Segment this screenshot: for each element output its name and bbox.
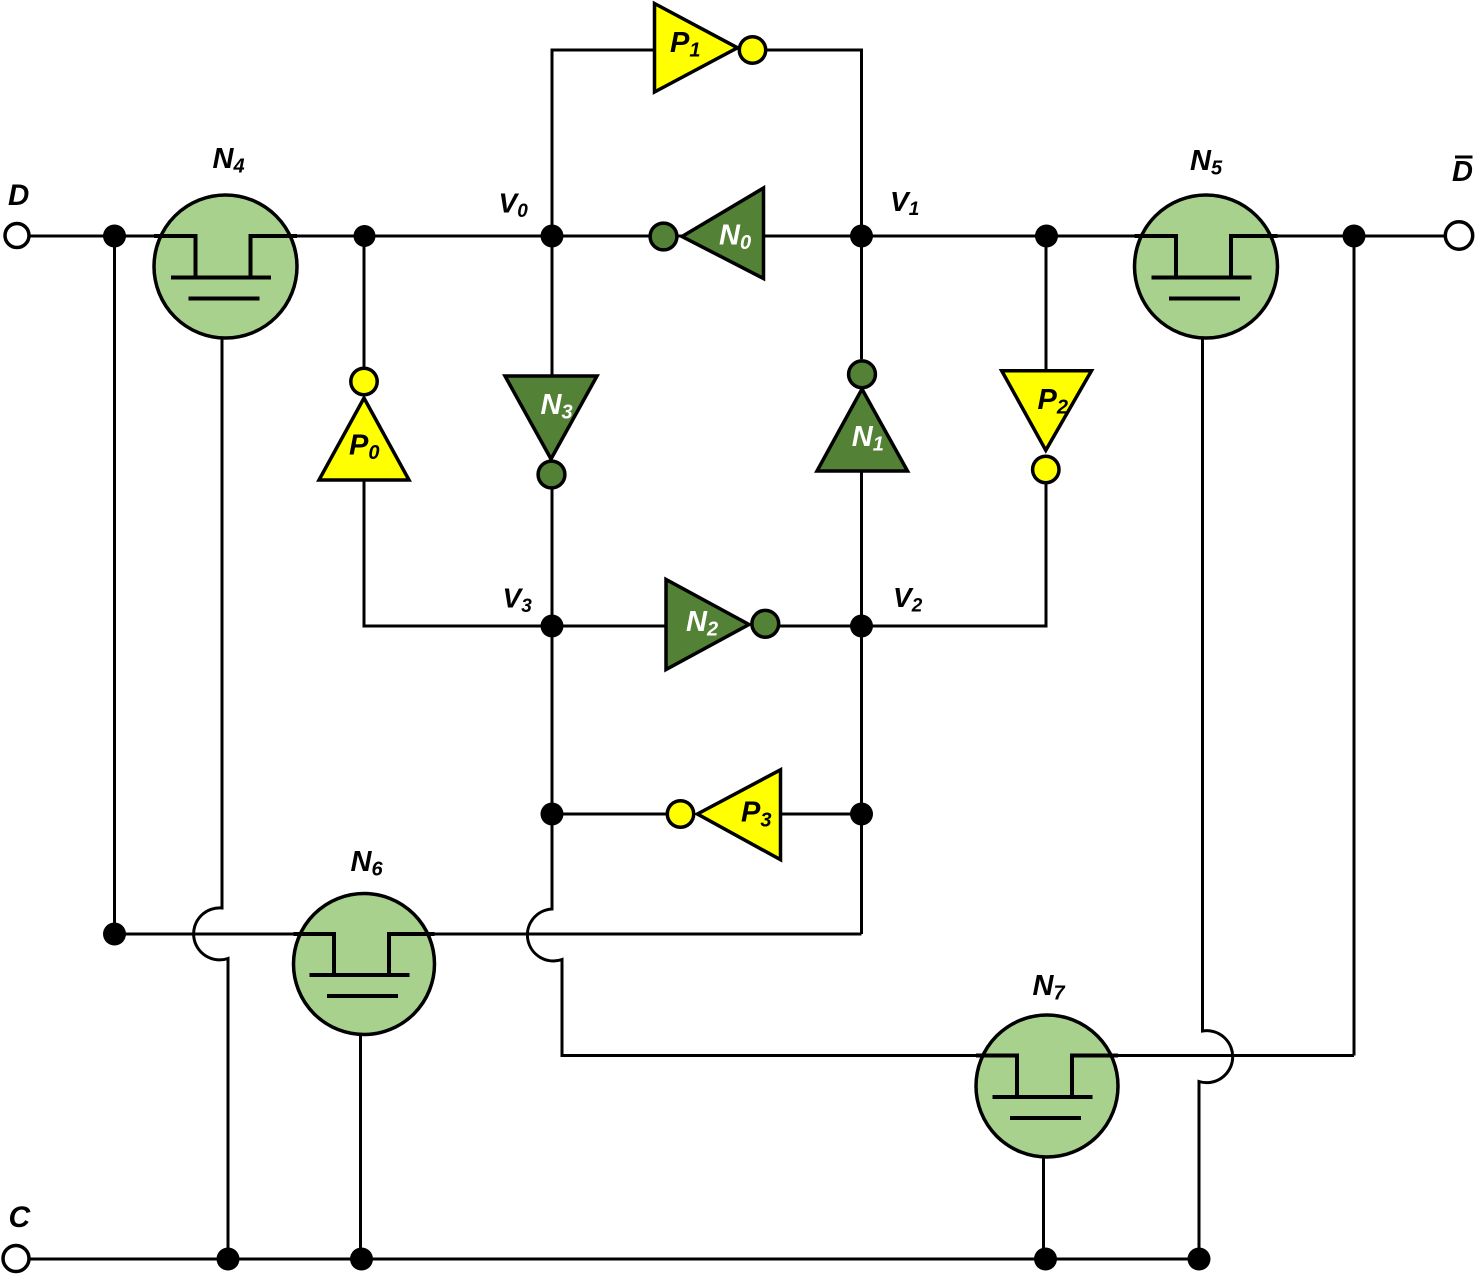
wire N6 row right to V1 column — [389, 933, 862, 936]
wire N6 row left — [115, 933, 335, 936]
wire D junction down to N6 row — [113, 236, 116, 934]
junction dot C rail N4 branch — [217, 1248, 240, 1271]
wire V1 column down to N6 wire — [860, 814, 863, 934]
junction dot P3 row right — [850, 803, 873, 826]
wire N0 to V1 — [764, 235, 862, 238]
svg-text:V0: V0 — [499, 187, 529, 222]
svg-text:N4: N4 — [213, 143, 245, 178]
svg-text:V3: V3 — [503, 583, 533, 618]
inverter P3 — [667, 770, 780, 860]
wire main rail D to N4 — [30, 235, 196, 238]
junction dot P0 branch — [354, 225, 376, 247]
wire P2 branch down from main rail — [1045, 236, 1048, 371]
wire N3 bubble down to V3 — [551, 490, 554, 627]
inverter N2 — [666, 580, 779, 670]
wire V3 to N2 — [552, 625, 666, 628]
inverter N3 — [505, 376, 597, 488]
terminal Dbar — [1445, 156, 1473, 249]
terminal D — [5, 179, 29, 248]
junction dot C rail right end — [1188, 1248, 1211, 1271]
svg-text:N6: N6 — [351, 846, 384, 881]
svg-text:C: C — [9, 1201, 32, 1234]
transistor N6 — [294, 846, 435, 1035]
svg-text:D: D — [1452, 156, 1473, 188]
junction dot Dbar branch — [1343, 225, 1366, 248]
wire main rail N5 to Dbar — [1231, 235, 1445, 238]
wire N4 gate down with hop over N6 wire — [194, 299, 228, 1260]
wire V0 to N0 bubble — [552, 235, 649, 238]
junction dot C rail N7 gate — [1034, 1248, 1057, 1271]
inverter P1 — [655, 4, 766, 93]
junction dot P2 branch — [1035, 225, 1058, 248]
transistor N7 — [976, 970, 1118, 1157]
wire P1 output to V1 — [767, 50, 862, 236]
transistor N4 — [154, 143, 297, 338]
wire C rail — [29, 1258, 1199, 1261]
svg-text:V1: V1 — [890, 186, 919, 220]
junction dot D branch — [103, 225, 126, 248]
wire Dbar junction down — [1353, 236, 1356, 1056]
terminal C — [3, 1201, 32, 1272]
wire main rail N4 to N5 — [251, 235, 1177, 238]
inverter P2 — [1002, 371, 1092, 483]
wire V3 down to P3 row — [551, 626, 554, 814]
inverter N1 — [817, 361, 908, 471]
svg-text:D: D — [8, 179, 29, 212]
node V3 — [503, 583, 564, 638]
node V2 — [850, 582, 923, 638]
inverter N0 — [650, 188, 763, 279]
svg-text:V2: V2 — [893, 582, 923, 616]
wire P2 bubble down to V2 row — [862, 484, 1047, 627]
node V0 — [499, 187, 564, 247]
wire P0 base down to V3 row — [364, 480, 552, 626]
wire V0 down to N3 — [551, 236, 554, 376]
junction dot P3 row left — [541, 803, 564, 826]
wire N7 gate down to C rail — [1042, 1118, 1045, 1259]
junction dot N6 row left — [103, 923, 126, 946]
svg-text:N5: N5 — [1190, 145, 1223, 180]
wire P3 row left dot to P3 bubble — [552, 813, 666, 816]
node V1 — [850, 186, 919, 248]
wire V2 down to P3 row — [860, 626, 863, 814]
junction dot C rail N6 gate — [350, 1248, 373, 1271]
inverter P0 — [319, 368, 409, 480]
wire P3 to right dot — [781, 813, 862, 816]
wire P0 branch down from main rail — [363, 236, 366, 367]
transistor N5 — [1135, 145, 1278, 338]
wire V3 column down with hop over N6 wire — [527, 814, 1017, 1056]
wire N2 bubble to V2 — [780, 625, 862, 628]
wire V0 up to top rail — [552, 50, 655, 236]
wire V1 down to N1 bubble — [860, 236, 863, 359]
svg-text:N7: N7 — [1033, 970, 1066, 1005]
wire N5 gate down with hop over N7 wire — [1199, 299, 1233, 1260]
wire N1 base down to V2 — [860, 471, 863, 626]
wire N6 gate down to C rail — [359, 996, 362, 1259]
wire N7 row right to Dbar column — [1072, 1054, 1354, 1057]
